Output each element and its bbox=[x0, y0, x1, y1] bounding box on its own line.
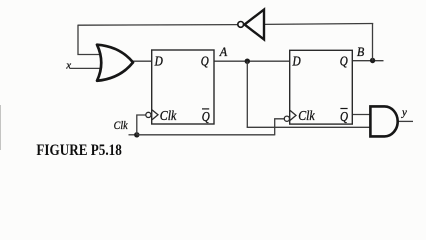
wire: x input bbox=[70, 67, 100, 69]
svg-text:y: y bbox=[401, 106, 407, 118]
FF1 clock edge triangle bbox=[152, 110, 158, 120]
wire: left vertical feedback drop bbox=[78, 25, 99, 55]
node B junction dot bbox=[370, 58, 375, 63]
svg-text:D: D bbox=[292, 55, 301, 70]
FF2 clock edge triangle bbox=[290, 110, 296, 120]
wire: FF2 Q output to B stub bbox=[353, 60, 384, 62]
d-flip-flop FF2 box bbox=[290, 50, 353, 124]
or-gate (inputs feedback and x) bbox=[97, 45, 133, 81]
and-gate (output y) bbox=[370, 106, 397, 136]
node Clk junction dot bbox=[134, 132, 139, 137]
scan artifact: left margin tick bbox=[0, 105, 1, 150]
node A junction dot bbox=[245, 59, 250, 64]
svg-text:Clk: Clk bbox=[298, 108, 316, 123]
svg-text:B: B bbox=[357, 45, 365, 59]
svg-text:Q: Q bbox=[202, 110, 210, 125]
FF2 clock bubble bbox=[284, 116, 289, 121]
inverter (NOT gate, pointing left) bbox=[238, 10, 264, 40]
wire: OR output to FF1 D bbox=[133, 60, 152, 62]
wire: Clk horizontal run to FF2 bbox=[137, 134, 275, 136]
wire: FF2 Qbar to AND gate upper input bbox=[353, 114, 372, 116]
wire: FF1 Q to FF2 D bbox=[214, 60, 290, 62]
wire: Clk vertical up to FF2 clock bubble bbox=[275, 119, 285, 136]
FF1 label Qbar bbox=[202, 109, 210, 125]
svg-text:Q: Q bbox=[340, 55, 348, 70]
wire: node A horizontal run to AND gate lower input bbox=[247, 126, 371, 128]
svg-text:Clk: Clk bbox=[114, 118, 129, 132]
d-flip-flop FF1 box bbox=[152, 50, 214, 124]
svg-text:A: A bbox=[219, 45, 228, 59]
svg-text:FIGURE P5.18: FIGURE P5.18 bbox=[36, 142, 122, 159]
svg-text:x: x bbox=[65, 60, 71, 72]
FF1 clock bubble bbox=[146, 112, 151, 117]
wire: Clk input stub bbox=[129, 134, 138, 136]
svg-text:D: D bbox=[154, 55, 163, 70]
FF2 label Qbar bbox=[340, 109, 348, 126]
svg-text:Q: Q bbox=[201, 55, 209, 70]
wire: AND output y bbox=[398, 120, 414, 122]
svg-text:Q: Q bbox=[340, 110, 348, 125]
wire: Clk vertical to FF1 clock bubble bbox=[137, 115, 146, 135]
wire: node A vertical drop bbox=[246, 61, 248, 127]
svg-text:Clk: Clk bbox=[160, 108, 178, 123]
wire: top feedback horizontal (right segment, B vertical to inverter input) bbox=[264, 23, 373, 26]
wire: B vertical up to top feedback bbox=[372, 23, 374, 61]
wire: top feedback horizontal (inverter output to left corner) bbox=[78, 24, 238, 27]
